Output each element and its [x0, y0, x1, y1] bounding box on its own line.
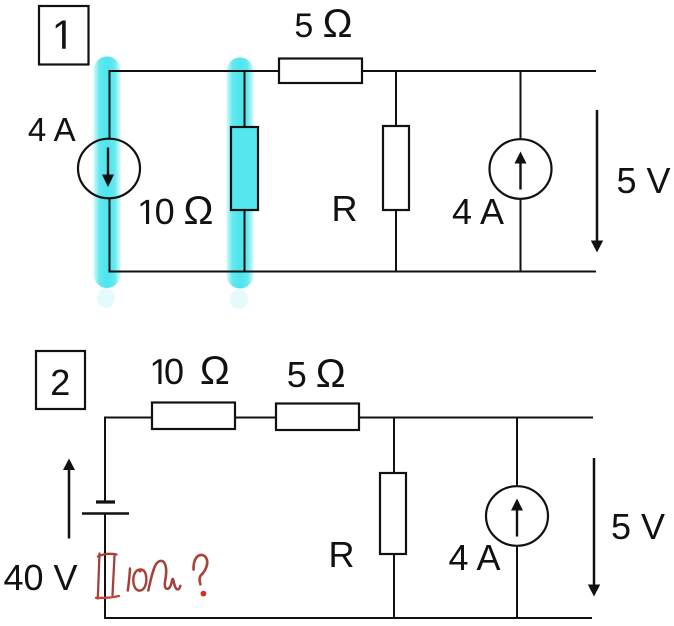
value label 4 A (circuit 1 left)	[28, 113, 76, 146]
resistor R (circuit 1, vertical)	[383, 126, 409, 210]
voltage arrow 5 V (circuit 2, pointing down)	[588, 458, 600, 597]
current source I1 4A down (circuit 1 left)	[78, 139, 140, 199]
wire: circuit 2 top, segment from left corner to 10 ohm	[104, 417, 152, 419]
circuit 1 label box "1"	[39, 6, 89, 65]
wire: circuit 1 left branch upper segment	[109, 70, 111, 139]
value label 10 ohm (circuit 1) digit 0	[155, 194, 175, 230]
wire: circuit 1 R branch lower segment	[395, 210, 397, 272]
resistor 5 ohm (circuit 2, horizontal)	[276, 404, 359, 431]
resistor 10 ohm (circuit 1, vertical, highlighted)	[231, 127, 258, 210]
highlighter smudge below 10 ohm band	[230, 289, 248, 309]
wire: circuit 2 4A branch upper segment	[516, 418, 518, 488]
red annotation: question mark	[194, 555, 208, 597]
value label 10 ohm (circuit 2) omega	[200, 351, 230, 391]
red annotation: handwritten omega	[148, 561, 180, 591]
label 40 V	[4, 560, 78, 596]
wire: circuit 1 bottom	[109, 271, 597, 273]
digit 1 of 10 ohm value label (circuit 2)	[153, 359, 162, 384]
wire: circuit 1 top, right segment	[362, 70, 596, 72]
battery V1 short plate	[96, 500, 115, 503]
highlighter band over 10 ohm branch	[227, 58, 254, 289]
current source 4A up (circuit 1 right)	[490, 139, 552, 199]
label 5 V (circuit 1)	[617, 163, 671, 199]
current source 4A up (circuit 2)	[486, 486, 548, 546]
highlighter band over left source branch	[94, 57, 121, 289]
wire: circuit 2 left branch above battery	[104, 417, 106, 502]
value label 10 ohm (circuit 2) digit 0	[164, 354, 184, 390]
wire: circuit 1 R branch upper segment	[395, 71, 397, 126]
battery V1 long plate	[82, 512, 129, 514]
wire: circuit 1 10 ohm branch upper segment	[244, 71, 246, 127]
highlighter smudge below left band	[97, 288, 115, 308]
wire: circuit 2 bottom	[105, 617, 592, 619]
wire: circuit 2 top, segment between resistors	[235, 417, 276, 419]
label R (circuit 1)	[332, 191, 358, 227]
value label 5 ohm (circuit 1) digit	[294, 9, 313, 43]
label 5 V (circuit 2)	[611, 509, 665, 545]
wire: circuit 1 10 ohm branch lower segment	[244, 210, 246, 272]
wire: circuit 2 left branch below battery	[104, 514, 106, 619]
wire: circuit 2 4A branch lower segment	[516, 546, 518, 619]
value label 5 ohm (circuit 2) omega	[316, 354, 346, 394]
red annotation: hand-drawn resistor box over wire	[96, 554, 119, 599]
value label 4 A (circuit 1 right)	[452, 194, 504, 230]
resistor 5 ohm (circuit 1, horizontal)	[279, 59, 362, 84]
label numeral 1 in box 1 (drawn Arial-style glyph)	[56, 21, 66, 49]
circuit 2 label box "2"	[36, 351, 85, 409]
wire: circuit 2 R branch upper segment	[393, 418, 395, 474]
red annotation: handwritten "1"	[128, 569, 130, 591]
value label 10 ohm (circuit 1) omega	[184, 191, 214, 231]
red annotation: handwritten "0"	[133, 569, 146, 591]
value label 5 ohm (circuit 1) omega	[323, 4, 353, 44]
value label 5 ohm (circuit 2) digit	[287, 357, 307, 393]
wire: circuit 1 top, left segment	[109, 70, 280, 72]
wire: circuit 1 4A branch upper segment	[520, 71, 522, 140]
voltage arrow 40 V (pointing up)	[63, 459, 75, 539]
digit 1 of 10 ohm value label (circuit 1)	[141, 200, 150, 224]
voltage arrow 5 V (circuit 1, pointing down)	[591, 110, 603, 253]
wire: circuit 1 left branch lower segment	[109, 198, 111, 272]
wire: circuit 2 top, right segment	[359, 417, 593, 419]
wire: circuit 1 4A branch lower segment	[520, 199, 522, 272]
label numeral 2 in box	[50, 365, 70, 401]
resistor R (circuit 2, vertical)	[380, 473, 406, 554]
resistor 10 ohm (circuit 2, horizontal)	[152, 403, 235, 430]
value label 4 A (circuit 2)	[449, 540, 501, 576]
wire: circuit 2 R branch lower segment	[393, 554, 395, 618]
label R (circuit 2)	[329, 537, 355, 573]
